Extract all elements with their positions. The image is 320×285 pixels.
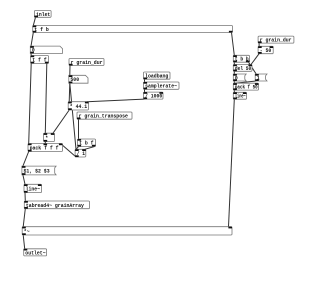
svg-text:samplerate~: samplerate~ bbox=[145, 84, 177, 90]
svg-text:tabread4~ grainArray: tabread4~ grainArray bbox=[26, 203, 85, 209]
svg-text:r grain_dur: r grain_dur bbox=[260, 38, 292, 44]
svg-text:inlet: inlet bbox=[36, 12, 50, 18]
svg-text:$1, $2 $3: $1, $2 $3 bbox=[24, 168, 50, 174]
svg-text:*~: *~ bbox=[24, 229, 30, 235]
svg-text:r grain_transpose: r grain_transpose bbox=[79, 114, 128, 120]
svg-text:0: 0 bbox=[32, 48, 35, 54]
svg-text:* 44.1: * 44.1 bbox=[70, 104, 87, 110]
svg-text:line~: line~ bbox=[26, 186, 40, 192]
svg-text:/ 1000: / 1000 bbox=[145, 94, 162, 100]
svg-text:line~: line~ bbox=[235, 94, 246, 100]
svg-text:r grain_dur: r grain_dur bbox=[71, 60, 103, 66]
svg-text:pack f 50: pack f 50 bbox=[235, 85, 258, 91]
svg-text:1: 1 bbox=[257, 75, 260, 81]
svg-text:0: 0 bbox=[235, 75, 238, 81]
svg-text:t b b: t b b bbox=[235, 57, 249, 63]
svg-text:*: * bbox=[45, 135, 48, 141]
svg-text:outlet~: outlet~ bbox=[25, 250, 45, 256]
svg-text:500: 500 bbox=[70, 77, 79, 83]
svg-text:loadbang: loadbang bbox=[145, 74, 168, 80]
svg-text:del 50: del 50 bbox=[235, 66, 251, 72]
svg-text:/ 1: / 1 bbox=[77, 151, 85, 157]
svg-text:t f b: t f b bbox=[34, 27, 49, 33]
svg-text:t b f: t b f bbox=[79, 141, 94, 147]
svg-text:- 50: - 50 bbox=[260, 48, 272, 54]
svg-text:pack f f f: pack f f f bbox=[30, 145, 59, 151]
svg-text:t f f: t f f bbox=[32, 57, 47, 63]
